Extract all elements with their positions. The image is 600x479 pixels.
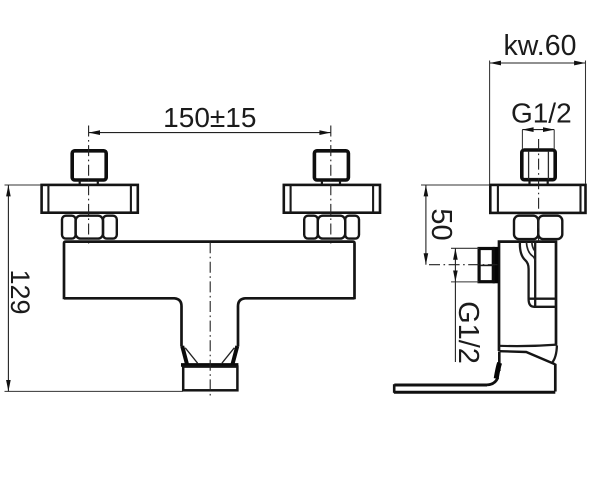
shower outlet facet line (480, 264, 493, 266)
outlet dimension extension lines (451, 248, 479, 282)
handle lever bottom edge (394, 391, 555, 394)
handle lever top edge (394, 384, 487, 387)
side nipple inner edges (529, 152, 549, 180)
side view internal bend arc B (532, 242, 535, 253)
side view internal passage outer (520, 242, 556, 307)
aerator housing rect (183, 367, 237, 391)
spout chamfer thick edges (182, 346, 237, 364)
aerator top thick line (181, 363, 238, 367)
handle base top edge (500, 351, 556, 364)
handle base left edge (498, 352, 501, 372)
left flange inner edges (48, 185, 130, 213)
side view junction line body bottom (499, 345, 557, 347)
dimension 50 line (425, 185, 427, 265)
right connector neck (322, 181, 340, 185)
dimension kw.60 line (490, 62, 586, 64)
outlet dimension bottom arrow (453, 271, 458, 282)
handle lever tip (393, 384, 396, 393)
svg-text:G1/2: G1/2 (452, 301, 484, 364)
side view internal passage inner (534, 242, 536, 306)
svg-text:kw.60: kw.60 (504, 30, 577, 62)
right connector nipple G1/2 (314, 151, 348, 180)
dimension 50 bottom arrow (424, 253, 429, 264)
left flange (42, 185, 138, 213)
dimension 129 extension line top (5, 184, 41, 186)
spout funnel inner lines (185, 348, 234, 363)
right flange inner edges (291, 185, 374, 213)
left hex nut (62, 216, 117, 239)
right flange (284, 185, 380, 213)
svg-text:50: 50 (425, 208, 457, 240)
dimension kw.60 left arrow (490, 61, 501, 66)
dimension kw.60 right arrow (574, 61, 585, 66)
outlet dimension line (454, 248, 456, 362)
side connector neck (530, 181, 548, 185)
dimension G1/2 top extension lines (522, 130, 554, 149)
outlet centerline (429, 264, 498, 266)
right hex nut (304, 216, 359, 239)
side flange inner edges (498, 185, 581, 213)
dimension 150±15 line (89, 132, 331, 134)
front view body bar (64, 242, 355, 347)
svg-text:129: 129 (5, 269, 35, 314)
handle lever fillet (487, 378, 498, 385)
side hex nut (514, 216, 562, 239)
dimension kw.60 extension lines (490, 61, 586, 185)
dimension G1/2 top left arrow (522, 127, 533, 132)
dimension 50 top arrow (424, 185, 429, 196)
side view underside arc (552, 345, 557, 363)
shower outlet black collar (493, 247, 499, 283)
side flange (490, 185, 585, 213)
side view centerline (538, 139, 540, 243)
shower outlet nipple (479, 249, 493, 282)
svg-text:G1/2: G1/2 (511, 98, 572, 129)
dimension G1/2 top line (522, 129, 554, 131)
svg-text:150±15: 150±15 (163, 102, 256, 133)
centerline right connector (330, 126, 332, 244)
dimension 129 bottom arrow (6, 380, 11, 391)
outlet dimension top arrow (453, 248, 458, 259)
dimension 129 extension line bottom (5, 390, 184, 392)
dimension 150±15 left arrow (89, 130, 100, 135)
centerline left connector (88, 126, 90, 244)
dimension 50 extension line (421, 184, 490, 186)
side nipple G1/2 (522, 150, 555, 180)
dimension 129 top arrow (6, 185, 11, 196)
dimension 129 line (7, 185, 9, 391)
handle base right edge (554, 364, 557, 392)
side view body edges (499, 242, 556, 351)
left connector neck (80, 181, 98, 185)
side view internal bend arc A (526, 242, 535, 261)
dimension G1/2 top right arrow (543, 127, 554, 132)
left connector nipple G1/2 (72, 151, 106, 180)
dimension 150±15 right arrow (319, 130, 330, 135)
centerline spout (209, 242, 211, 398)
